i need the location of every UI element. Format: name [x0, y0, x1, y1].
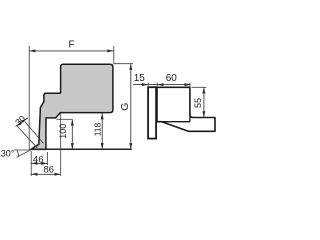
dimension 46: extension lines: [30, 151, 32, 176]
dimension 30deg: angled leg: [17, 150, 31, 158]
svg-text:55: 55: [193, 98, 203, 108]
profile cross-section (gray extrusion body): [31, 64, 113, 149]
dimension 118: line with arrows: [101, 113, 104, 149]
right view: bracket outline: [157, 87, 215, 131]
dimension F: left extension line: [28, 46, 30, 150]
svg-text:G: G: [119, 103, 131, 111]
dimension 55: line with arrows: [202, 87, 205, 117]
dimension 30: dim line with arrows: [16, 118, 28, 127]
dimension 30deg: arc: [17, 150, 19, 156]
right view: vertical plate: [148, 87, 156, 138]
dimension G: line with arrows: [129, 64, 132, 150]
dimension 15/60: line with arrows: [133, 83, 191, 86]
dimension 55: top extension line: [192, 86, 207, 88]
dimension 15/60: extension ticks: [147, 83, 149, 88]
dimension 86: line with arrows: [31, 173, 61, 176]
svg-text:86: 86: [44, 165, 55, 176]
dimension 86: extension line: [60, 114, 62, 177]
dimension G: top extension line: [114, 63, 134, 65]
dimension 30deg: horizontal leg: [14, 149, 31, 151]
svg-text:15: 15: [134, 73, 146, 84]
right view: web right edge continuation: [189, 114, 191, 122]
svg-text:30°: 30°: [1, 148, 15, 158]
svg-text:118: 118: [92, 122, 102, 136]
svg-text:46: 46: [33, 154, 44, 165]
dimension 100: extension line: [57, 118, 73, 120]
dimension 46: line with arrows: [31, 162, 47, 165]
dimension F: line with arrows: [29, 49, 113, 52]
right view: bracket internal edge (body bottom face): [158, 121, 190, 123]
dimension F: right extension line: [113, 46, 115, 64]
dimension 100: line with arrows: [71, 119, 74, 149]
svg-text:100: 100: [58, 124, 68, 139]
svg-text:60: 60: [166, 73, 178, 84]
dimension 30 (flange length): extension lines: [17, 126, 37, 148]
bottom baseline under profile: [31, 148, 132, 150]
svg-text:F: F: [69, 39, 75, 50]
